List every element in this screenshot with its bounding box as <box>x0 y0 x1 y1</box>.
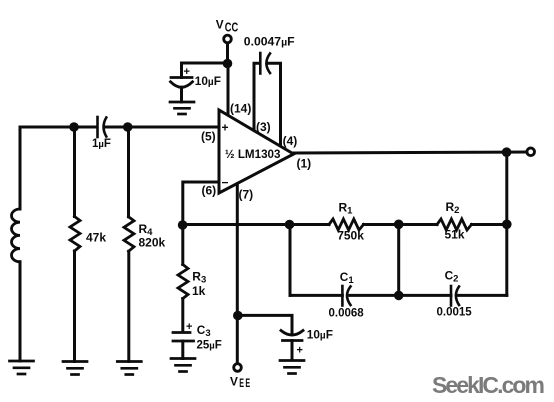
node: R4 top junction <box>123 122 133 132</box>
capacitor C2 <box>451 286 459 306</box>
node: R3 top junction <box>178 220 188 230</box>
terminal VCC <box>224 35 232 43</box>
capacitor 10uF (VEE bypass) <box>281 331 303 361</box>
wire: left rail down to inductor <box>19 127 22 209</box>
svg-text:−: − <box>222 176 229 190</box>
node: 47k top junction <box>69 122 79 132</box>
wire: input row left of C <box>20 126 97 129</box>
capacitor 10uF (VCC bypass) <box>171 63 193 102</box>
svg-text:V: V <box>230 374 238 388</box>
wire: middle vertical <box>397 224 400 295</box>
wire: output <box>294 152 526 153</box>
wire: R3 top lead <box>181 225 184 265</box>
resistor 47k <box>70 217 80 252</box>
svg-text:C1: C1 <box>340 270 355 286</box>
svg-text:V: V <box>216 18 224 32</box>
wire: VCC junction left to bypass cap <box>182 62 228 65</box>
capacitor 1uF (series, input row) <box>98 117 107 137</box>
capacitor 0.0047uF <box>260 53 270 74</box>
ground (47k) <box>63 362 87 375</box>
svg-text:R1: R1 <box>339 201 354 217</box>
wire: 47k top lead <box>73 127 76 217</box>
inductor L1 <box>12 209 20 262</box>
wire: pin 7 down to VEE <box>236 184 239 363</box>
ground (R4) <box>117 362 141 375</box>
resistor R2 <box>437 219 472 230</box>
wire: R4 top lead <box>127 127 130 217</box>
wire: C1 to middle node <box>350 294 399 297</box>
node: VEE junction <box>233 311 243 321</box>
wire: input row right of C to op-amp + <box>105 126 218 129</box>
svg-text:0.0068: 0.0068 <box>329 308 365 320</box>
svg-text:(6): (6) <box>202 184 217 198</box>
svg-text:1µF: 1µF <box>92 138 111 150</box>
ground (C3) <box>171 359 195 372</box>
wire: inductor to ground <box>19 262 22 361</box>
svg-text:(1): (1) <box>297 157 312 171</box>
svg-text:C3: C3 <box>197 323 211 339</box>
wire: R2 to output node <box>472 223 507 226</box>
svg-text:+: + <box>297 345 303 357</box>
svg-text:EE: EE <box>239 376 251 390</box>
op-amp U1 triangle <box>219 110 294 193</box>
svg-text:0.0047µF: 0.0047µF <box>244 35 295 49</box>
capacitor C3 25uF <box>173 333 194 359</box>
wire: VCC junction to pin 14 <box>227 64 230 116</box>
ground (10uF top) <box>170 102 194 114</box>
svg-text:51k: 51k <box>445 228 465 242</box>
svg-text:(14): (14) <box>230 102 251 116</box>
wire: R3 to C3 <box>181 299 184 333</box>
resistor R3 <box>178 265 188 299</box>
svg-text:(3): (3) <box>256 120 271 134</box>
node: R-row left junction <box>285 220 295 230</box>
svg-text:R3: R3 <box>192 269 206 285</box>
wire: C2 to right vertical <box>458 294 507 297</box>
svg-text:SeekIC.com: SeekIC.com <box>432 372 545 398</box>
terminal: output <box>527 148 535 156</box>
svg-text:C2: C2 <box>445 268 459 284</box>
wire: C-row middle to C2 <box>399 294 451 297</box>
capacitor C1 <box>342 286 350 306</box>
wire: 47k to ground <box>73 251 76 362</box>
svg-text:820k: 820k <box>139 236 166 250</box>
svg-text:CC: CC <box>225 20 238 35</box>
svg-text:R2: R2 <box>446 200 460 216</box>
wire: pin 4 up <box>269 63 281 146</box>
svg-text:10µF: 10µF <box>307 327 333 341</box>
ground (10uF bottom) <box>280 361 304 374</box>
ground (inductor) <box>10 361 34 374</box>
node: VCC junction <box>223 59 233 69</box>
wire: VEE junction right to 10uF <box>238 315 292 334</box>
svg-text:47k: 47k <box>86 231 106 245</box>
resistor R4 <box>124 217 134 252</box>
wire: right vertical output to C-row <box>505 152 508 295</box>
svg-text:+: + <box>222 121 229 135</box>
svg-text:25µF: 25µF <box>197 340 222 352</box>
wire: pin 6 left and down <box>183 182 219 225</box>
svg-text:+: + <box>186 321 192 333</box>
svg-text:+: + <box>184 66 190 78</box>
svg-text:750k: 750k <box>337 228 364 242</box>
svg-text:10µF: 10µF <box>195 74 221 88</box>
svg-text:1k: 1k <box>192 284 206 298</box>
svg-text:(7): (7) <box>239 188 254 202</box>
node: R1-R2 junction <box>394 220 404 230</box>
svg-text:½ LM1303: ½ LM1303 <box>225 149 281 161</box>
wire: C-row left segment <box>290 294 342 297</box>
resistor R1 <box>329 219 364 230</box>
node: output junction <box>502 147 512 157</box>
wire: R1 to R2 <box>364 223 438 226</box>
wire: R4 to ground <box>127 251 130 361</box>
wire: VCC down <box>226 44 229 63</box>
svg-text:(4): (4) <box>283 134 298 148</box>
svg-text:(5): (5) <box>201 130 216 144</box>
node: output-row junction <box>502 220 512 230</box>
wire: feedback row (node 6 to R1) <box>183 223 329 226</box>
terminal VEE <box>234 364 242 372</box>
svg-text:0.0015: 0.0015 <box>437 307 473 319</box>
node: C-row middle junction <box>394 291 404 301</box>
wire: pin 3 up <box>254 63 260 130</box>
wire: left vertical R-row to C-row <box>289 225 292 296</box>
